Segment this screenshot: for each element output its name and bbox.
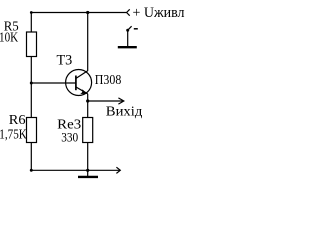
ground (bottom): [78, 176, 98, 178]
node bottom emitter junction: [86, 169, 89, 172]
terminal arrow +U: [127, 9, 130, 15]
svg-text:1,75K: 1,75K: [0, 128, 27, 143]
resistor R6: [27, 118, 37, 143]
svg-text:330: 330: [61, 130, 78, 145]
svg-text:+ Uживл: + Uживл: [133, 5, 185, 21]
wire left vertical upper: [30, 13, 32, 33]
node junction top of R5 branch: [30, 11, 33, 14]
terminal - (minus supply pin): [126, 26, 131, 32]
wire top rail: [31, 12, 126, 14]
transistor T3 (П308): [66, 70, 92, 96]
svg-text:T3: T3: [57, 53, 73, 69]
wire ground stem: [87, 170, 89, 176]
node output junction: [86, 99, 89, 102]
node base junction: [30, 82, 33, 85]
wire collector vertical: [87, 13, 89, 71]
wire base: [31, 82, 76, 84]
wire output: [88, 100, 124, 102]
body circle: [66, 70, 92, 96]
wire emitter lower vertical: [87, 143, 89, 171]
emitter arrowhead: [80, 89, 87, 94]
terminal arrow bottom: [116, 167, 120, 173]
base bar: [75, 76, 77, 91]
node bottom-left corner: [30, 169, 33, 172]
label - (minus): [134, 28, 138, 30]
collector lead: [76, 71, 88, 79]
wire minus terminal stem: [127, 30, 129, 47]
wire emitter vertical: [87, 94, 89, 118]
resistor Re3: [83, 118, 93, 143]
resistor R5: [27, 32, 37, 57]
svg-text:Вихід: Вихід: [106, 103, 143, 118]
terminal arrow output: [118, 98, 123, 104]
wire left vertical middle: [30, 57, 32, 118]
wire left vertical lower: [30, 143, 32, 171]
ground (supply common): [118, 46, 137, 48]
wire bottom rail: [31, 169, 120, 171]
emitter lead: [76, 87, 88, 94]
svg-text:R6: R6: [9, 112, 26, 127]
svg-text:П308: П308: [95, 72, 122, 87]
node junction top of collector branch: [86, 11, 89, 14]
svg-text:10K: 10K: [0, 29, 18, 44]
